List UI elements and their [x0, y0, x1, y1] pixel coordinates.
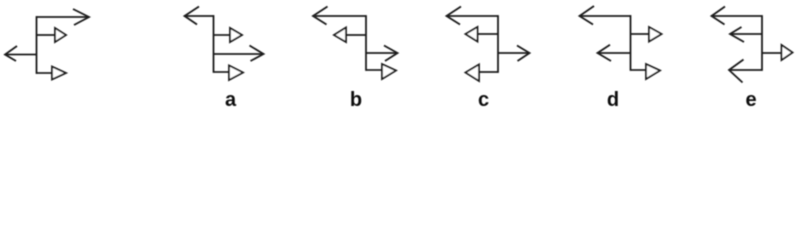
option c label: [478, 89, 489, 111]
option e middle-lower arrow right (open triangle head): [762, 45, 793, 60]
option e label: [745, 89, 756, 111]
option a middle-upper arrow right (open triangle head): [214, 28, 242, 42]
option b top arrow left (chevron head): [313, 7, 366, 25]
option e middle-upper arrow left (chevron head): [730, 27, 762, 42]
option c middle-upper arrow left (open triangle head): [466, 27, 499, 42]
option b label: [350, 89, 362, 111]
option b middle-upper arrow left (open triangle head): [334, 28, 366, 43]
option d stem: [630, 15, 632, 71]
option e top arrow left (chevron head): [712, 7, 763, 25]
question figure left arrow (chevron head): [5, 46, 37, 61]
option a stem: [213, 15, 215, 73]
option b middle-lower arrow right (chevron head): [366, 46, 398, 62]
option e stem: [761, 15, 763, 71]
option c top arrow left (chevron head): [447, 7, 499, 25]
question figure top arrow right (chevron head): [36, 9, 89, 25]
option d label: [607, 89, 619, 111]
option b stem: [365, 15, 367, 71]
option c stem: [497, 15, 499, 73]
option d top arrow left (chevron head): [580, 6, 632, 25]
svg-text:b: b: [350, 89, 362, 111]
svg-text:a: a: [225, 89, 237, 111]
option b bottom arrow right (open triangle head): [366, 64, 396, 79]
option d middle-lower arrow left (chevron head): [598, 45, 632, 61]
question figure stem: [36, 16, 38, 74]
svg-text:c: c: [478, 89, 489, 111]
option a label: [225, 89, 237, 111]
question figure bottom arrow right (open triangle head): [36, 67, 66, 80]
option c bottom arrow left (open triangle head): [466, 65, 499, 82]
option a bottom arrow right (open triangle head): [214, 66, 243, 81]
svg-text:e: e: [745, 89, 756, 111]
option d middle-upper arrow right (open triangle head): [631, 27, 662, 42]
option d bottom arrow right (open triangle head): [631, 64, 660, 79]
option e bottom arrow left (chevron head): [729, 60, 762, 83]
option a middle-lower arrow right (chevron head): [214, 46, 264, 62]
option a top arrow left (chevron head): [185, 7, 215, 25]
svg-text:d: d: [607, 89, 619, 111]
question figure middle arrow right (open triangle head): [36, 28, 66, 42]
option c middle-lower arrow right (chevron head): [498, 46, 530, 62]
